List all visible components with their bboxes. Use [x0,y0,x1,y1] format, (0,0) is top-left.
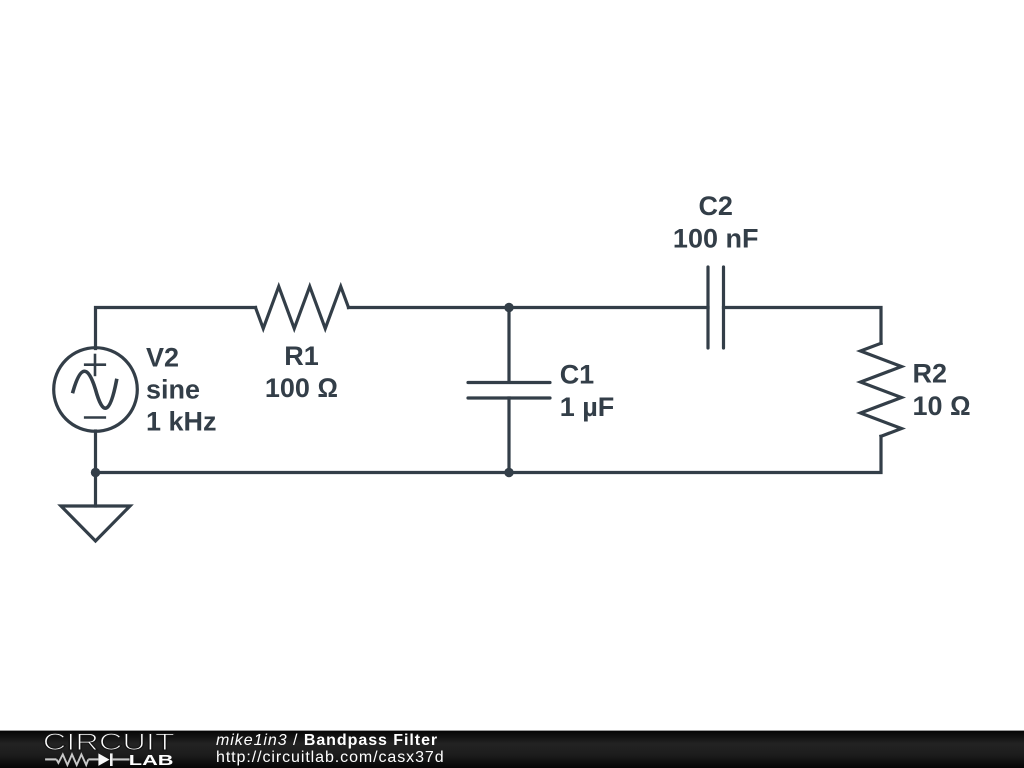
svg-text:V2: V2 [146,343,179,373]
capacitor C1 [468,383,550,399]
ground symbol [61,506,130,541]
svg-text:R2: R2 [913,359,948,389]
svg-text:1 µF: 1 µF [560,392,615,422]
svg-text:1 kHz: 1 kHz [146,407,217,437]
svg-text:R1: R1 [284,341,319,371]
wire ground stem [94,473,97,507]
wire top-left: source top to R1 left [96,308,256,349]
wire source bottom [94,431,97,473]
logo mini schematic wire [45,753,129,766]
node junction dot bottom [504,468,513,477]
wire C1 bottom [507,398,510,473]
svg-text:C2: C2 [698,191,733,221]
svg-text:LAB: LAB [129,751,174,768]
footer bar [0,731,1024,768]
wire R1 right to C2 left plate [349,306,709,309]
wire R2 bottom to bottom rail [509,436,881,472]
wire C1 top [507,308,510,383]
V2 plus sign [85,355,105,375]
V2 minus sign [85,416,105,419]
logo mini diode [98,753,109,766]
resistor R1 [256,287,349,329]
svg-text:100 Ω: 100 Ω [265,373,338,403]
wire bottom rail left [96,471,510,474]
svg-text:C1: C1 [560,360,595,390]
node junction dot top [504,303,513,312]
svg-text:100 nF: 100 nF [673,224,759,254]
svg-text:http://circuitlab.com/casx37d: http://circuitlab.com/casx37d [216,749,445,766]
resistor R2 [861,343,902,436]
node junction dot source-ground [91,468,100,477]
voltage source V2 circle [54,348,138,432]
V2 sine wave [73,371,117,408]
logo mini resistor [57,754,89,765]
wire C2 right plate to R2 top [724,308,882,344]
capacitor C2 [708,267,724,348]
svg-text:10 Ω: 10 Ω [913,391,971,421]
svg-text:mike1in3 / Bandpass Filter: mike1in3 / Bandpass Filter [216,732,438,749]
svg-text:sine: sine [146,375,200,405]
